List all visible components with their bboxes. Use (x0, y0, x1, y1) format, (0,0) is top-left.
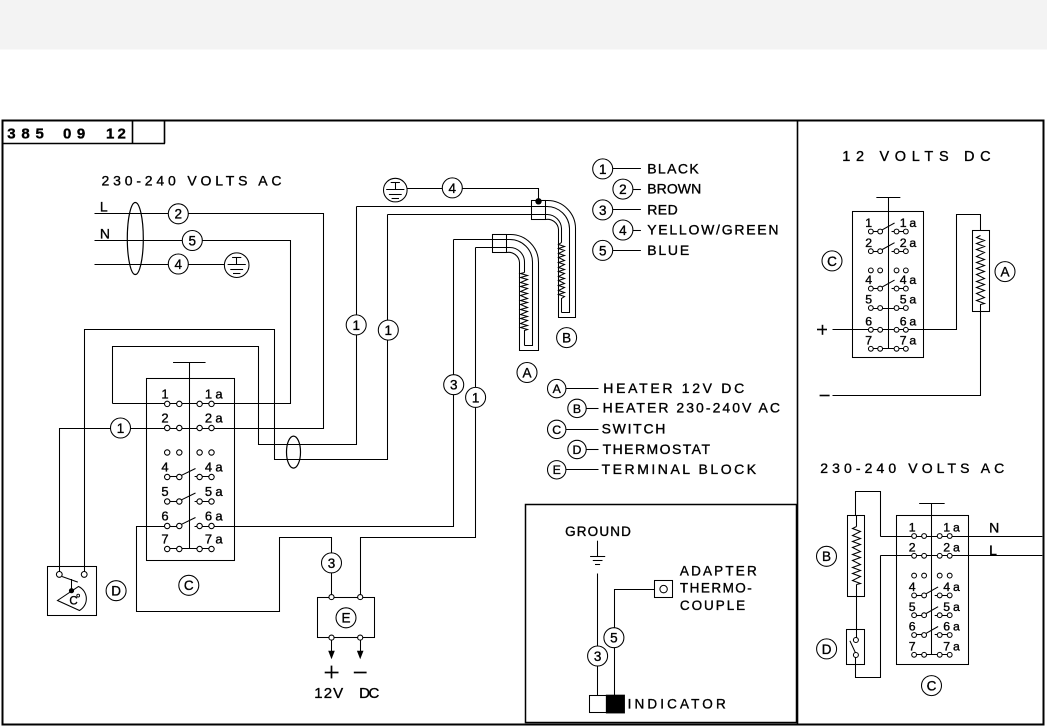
svg-text:A: A (522, 365, 531, 380)
svg-text:5: 5 (161, 484, 168, 499)
svg-text:C: C (184, 578, 194, 593)
svg-text:RED: RED (647, 202, 678, 218)
svg-text:4: 4 (205, 460, 212, 475)
svg-text:a: a (953, 639, 960, 653)
svg-text:L: L (989, 542, 997, 558)
svg-text:2: 2 (865, 236, 872, 250)
svg-text:3: 3 (599, 203, 607, 218)
svg-text:230-240 VOLTS AC: 230-240 VOLTS AC (102, 173, 282, 189)
svg-text:C: C (69, 596, 77, 608)
svg-text:C: C (927, 678, 937, 693)
svg-text:a: a (215, 532, 223, 547)
svg-text:1: 1 (599, 162, 607, 177)
svg-text:1: 1 (385, 323, 393, 338)
svg-text:E: E (341, 611, 350, 626)
svg-text:7: 7 (900, 333, 907, 347)
svg-text:INDICATOR: INDICATOR (628, 696, 726, 711)
svg-text:BROWN: BROWN (647, 181, 701, 197)
svg-text:4: 4 (943, 580, 950, 594)
svg-text:4: 4 (619, 223, 627, 238)
svg-text:L: L (100, 199, 108, 215)
svg-text:a: a (953, 540, 960, 554)
svg-text:5: 5 (189, 233, 197, 248)
svg-text:a: a (909, 273, 916, 287)
svg-text:5: 5 (610, 631, 618, 646)
svg-text:1: 1 (472, 390, 480, 405)
svg-text:a: a (909, 216, 916, 230)
svg-text:THERMOSTAT: THERMOSTAT (603, 441, 711, 457)
svg-text:1: 1 (205, 387, 212, 402)
svg-text:4: 4 (900, 273, 907, 287)
svg-text:D: D (111, 584, 121, 599)
svg-text:7: 7 (865, 333, 872, 347)
svg-text:DC: DC (359, 685, 379, 702)
svg-text:1: 1 (943, 521, 950, 535)
svg-text:a: a (909, 236, 916, 250)
svg-text:BLUE: BLUE (647, 242, 689, 258)
svg-text:4: 4 (449, 181, 457, 196)
svg-text:COUPLE: COUPLE (680, 598, 745, 613)
svg-text:1: 1 (161, 387, 168, 402)
svg-text:a: a (215, 411, 223, 426)
svg-text:a: a (215, 509, 223, 524)
svg-text:2: 2 (900, 236, 907, 250)
svg-text:YELLOW/GREEN: YELLOW/GREEN (647, 222, 778, 238)
svg-text:B: B (562, 330, 571, 345)
svg-text:12 VOLTS DC: 12 VOLTS DC (842, 149, 990, 165)
svg-text:1: 1 (900, 216, 907, 230)
svg-text:12: 12 (106, 126, 126, 143)
svg-text:09: 09 (63, 126, 85, 143)
svg-text:2: 2 (161, 411, 168, 426)
svg-text:1: 1 (865, 216, 872, 230)
svg-text:3: 3 (328, 556, 336, 571)
svg-text:a: a (909, 333, 916, 347)
svg-text:2: 2 (943, 540, 950, 554)
svg-text:THERMO-: THERMO- (680, 580, 752, 595)
svg-text:5: 5 (900, 293, 907, 307)
svg-text:7: 7 (161, 532, 168, 547)
svg-text:B: B (573, 402, 581, 416)
svg-text:385: 385 (7, 126, 44, 143)
svg-text:7: 7 (909, 639, 916, 653)
svg-text:A: A (553, 382, 562, 396)
svg-text:2: 2 (909, 540, 916, 554)
svg-text:a: a (215, 484, 223, 499)
svg-text:5: 5 (205, 484, 212, 499)
svg-text:3: 3 (594, 649, 602, 664)
svg-text:7: 7 (943, 639, 950, 653)
svg-text:5: 5 (943, 600, 950, 614)
svg-text:4: 4 (175, 257, 183, 272)
svg-text:a: a (953, 600, 960, 614)
svg-text:4: 4 (865, 273, 872, 287)
svg-text:B: B (822, 549, 831, 564)
svg-text:6: 6 (900, 314, 907, 328)
svg-text:a: a (215, 387, 223, 402)
svg-text:a: a (953, 521, 960, 535)
svg-text:N: N (100, 226, 110, 242)
svg-text:GROUND: GROUND (565, 524, 631, 539)
svg-text:a: a (953, 580, 960, 594)
svg-text:4: 4 (161, 460, 168, 475)
svg-text:1: 1 (909, 521, 916, 535)
svg-text:2: 2 (205, 411, 212, 426)
svg-text:C: C (827, 254, 837, 269)
svg-text:a: a (953, 620, 960, 634)
svg-text:ADAPTER: ADAPTER (680, 563, 757, 578)
svg-text:2: 2 (175, 207, 183, 222)
svg-text:N: N (989, 520, 999, 536)
svg-text:5: 5 (865, 293, 872, 307)
svg-text:1: 1 (117, 421, 125, 436)
svg-text:12V: 12V (314, 685, 343, 702)
svg-text:C: C (552, 423, 561, 437)
svg-text:D: D (822, 642, 832, 657)
svg-text:6: 6 (161, 509, 168, 524)
svg-text:SWITCH: SWITCH (602, 421, 666, 437)
svg-text:6: 6 (943, 620, 950, 634)
svg-text:6: 6 (909, 620, 916, 634)
svg-text:6: 6 (865, 314, 872, 328)
svg-text:a: a (909, 293, 916, 307)
svg-text:7: 7 (205, 532, 212, 547)
svg-text:6: 6 (205, 509, 212, 524)
svg-text:4: 4 (909, 580, 916, 594)
svg-text:2: 2 (619, 182, 627, 197)
svg-text:TERMINAL BLOCK: TERMINAL BLOCK (602, 461, 757, 477)
svg-text:BLACK: BLACK (647, 161, 699, 177)
svg-text:a: a (909, 314, 916, 328)
svg-text:HEATER 230-240V AC: HEATER 230-240V AC (603, 400, 780, 416)
svg-text:1: 1 (352, 318, 360, 333)
svg-text:5: 5 (909, 600, 916, 614)
svg-text:E: E (553, 463, 561, 477)
svg-text:D: D (573, 443, 582, 457)
svg-text:a: a (215, 460, 223, 475)
svg-text:5: 5 (599, 243, 607, 258)
svg-text:A: A (1000, 264, 1009, 279)
svg-text:HEATER 12V DC: HEATER 12V DC (603, 380, 744, 396)
svg-text:230-240 VOLTS AC: 230-240 VOLTS AC (820, 460, 1004, 476)
svg-text:3: 3 (450, 378, 458, 393)
